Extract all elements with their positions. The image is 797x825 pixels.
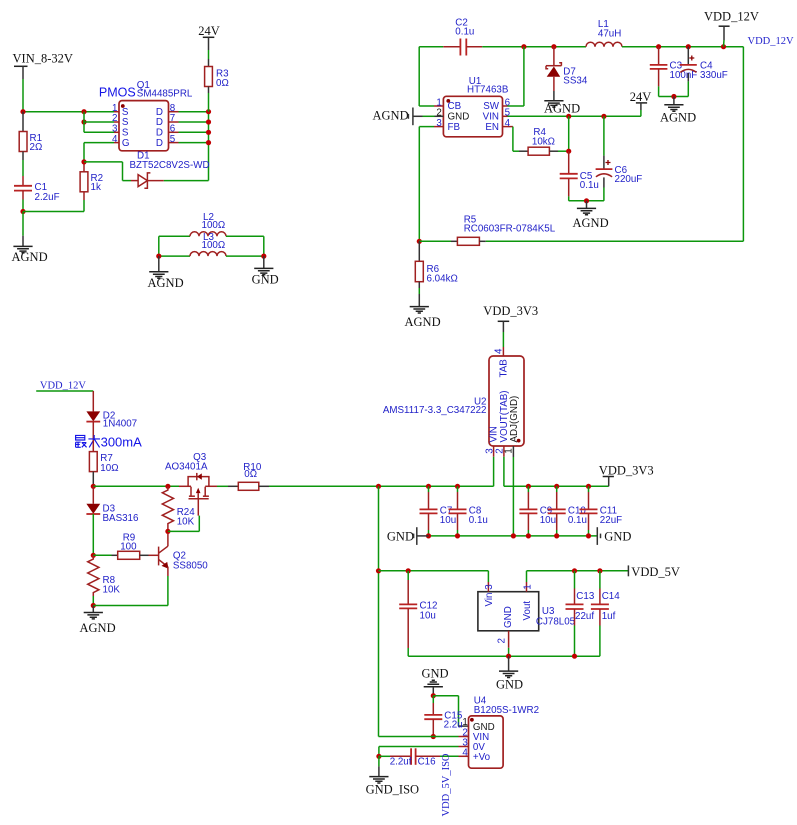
svg-text:0.1u: 0.1u bbox=[580, 180, 599, 191]
junction R24 bottom / Q2 collector / Q3 gate bbox=[165, 529, 170, 534]
svg-text:GND: GND bbox=[496, 678, 523, 692]
wire VIN flag to node A bbox=[22, 66, 24, 111]
junction 5V input rail bbox=[376, 568, 381, 573]
svg-text:G: G bbox=[122, 138, 130, 149]
capacitor C9 10u bbox=[519, 486, 556, 536]
wire L2-L3 left vertical bbox=[158, 236, 160, 256]
wire top rail left segment bbox=[419, 46, 443, 48]
junction node A bbox=[20, 109, 25, 114]
junction C7 top bbox=[426, 484, 431, 489]
U2 pin2 VOUT stub bbox=[503, 446, 505, 486]
ic U4 B1205S-1WR2 body bbox=[469, 696, 540, 769]
junction at x84 row1 bbox=[81, 109, 86, 114]
capacitor C5 0.1u bbox=[560, 151, 599, 201]
junction U2 pin1 bottom bbox=[511, 533, 516, 538]
svg-text:0.1u: 0.1u bbox=[568, 515, 587, 526]
junction C4 top bbox=[686, 44, 691, 49]
net label VDD_12V left bbox=[36, 380, 93, 411]
capacitor C12 10u bbox=[399, 571, 437, 656]
net port GND above C15 bbox=[422, 667, 449, 696]
svg-text:GND: GND bbox=[387, 530, 414, 544]
svg-text:22uF: 22uF bbox=[600, 515, 622, 526]
ground GND (L3) bbox=[252, 256, 279, 286]
junction C10 bottom bbox=[554, 533, 559, 538]
U1 pin numbers bbox=[436, 97, 510, 129]
svg-text:AGND: AGND bbox=[573, 216, 609, 230]
junction C8 bottom bbox=[455, 533, 460, 538]
svg-text:47uH: 47uH bbox=[598, 28, 621, 39]
junction GND/C15 bbox=[431, 693, 436, 698]
net flag 24V bbox=[198, 24, 220, 38]
resistor R2 bbox=[80, 162, 103, 212]
diode D2 1N4007 bbox=[86, 411, 137, 441]
net port GND left bbox=[387, 527, 429, 545]
svg-text:AGND: AGND bbox=[12, 250, 48, 264]
svg-text:C14: C14 bbox=[602, 591, 621, 602]
svg-text:BAS316: BAS316 bbox=[103, 513, 140, 524]
svg-text:5: 5 bbox=[170, 134, 176, 145]
svg-text:VDD_12V: VDD_12V bbox=[40, 380, 86, 391]
inductor L2 bbox=[159, 212, 264, 236]
U3 pin1 Vout stub bbox=[526, 571, 528, 592]
junction R7/D3/rail bbox=[91, 484, 96, 489]
wire bottom node to AGND bbox=[22, 212, 24, 247]
wire R24 node to Q3 gate bbox=[168, 499, 199, 532]
svg-text:AGND: AGND bbox=[405, 315, 441, 329]
junction C3 top bbox=[656, 44, 661, 49]
junction C10 top bbox=[554, 484, 559, 489]
junction C1/R2 bottom node bbox=[20, 209, 25, 214]
capacitor C4 330uF polarized bbox=[680, 47, 728, 97]
svg-text:1uf: 1uf bbox=[602, 611, 616, 622]
svg-text:BZT52C8V2S-WD: BZT52C8V2S-WD bbox=[130, 160, 210, 171]
resistor R4 10k bbox=[519, 127, 569, 155]
wire C5/C6 bottom bbox=[569, 200, 604, 202]
ground AGND (C5C6) bbox=[573, 201, 609, 230]
resistor R6 6.04k bbox=[415, 241, 457, 306]
svg-text:+Vo: +Vo bbox=[473, 752, 491, 763]
capacitor C16 2.2uf bbox=[379, 748, 469, 767]
inductor L3 bbox=[159, 232, 264, 256]
svg-text:EN: EN bbox=[485, 122, 499, 133]
svg-text:AMS1117-3.3_C347222: AMS1117-3.3_C347222 bbox=[383, 405, 487, 416]
diode D1 BZT52C8V2S-WD zener bbox=[130, 151, 210, 189]
wire Q3 source/drain stubs bbox=[179, 485, 228, 487]
svg-text:GND_ISO: GND_ISO bbox=[366, 783, 419, 797]
svg-text:AGND: AGND bbox=[373, 109, 409, 123]
power flag VDD_12V bbox=[704, 10, 759, 47]
svg-text:2.2uF: 2.2uF bbox=[35, 192, 60, 203]
svg-text:AO3401A: AO3401A bbox=[165, 461, 208, 472]
junction D7 top bbox=[551, 44, 556, 49]
svg-text:2.2u: 2.2u bbox=[444, 719, 463, 730]
svg-text:10u: 10u bbox=[420, 610, 436, 621]
svg-text:AGND: AGND bbox=[148, 276, 184, 290]
wire 12V branch vertical down bbox=[378, 486, 380, 736]
diode D7 SS34 schottky bbox=[546, 47, 588, 101]
svg-text:4: 4 bbox=[494, 348, 505, 354]
junction C11 top bbox=[586, 484, 591, 489]
svg-text:GND: GND bbox=[422, 667, 449, 681]
wire R2 bottom to C1 node bbox=[23, 211, 84, 213]
svg-text:SM4485PRL: SM4485PRL bbox=[137, 88, 193, 99]
svg-text:100Ω: 100Ω bbox=[202, 240, 226, 251]
capacitor C15 2.2u bbox=[424, 696, 463, 737]
power flag VDD_3V3 right bbox=[599, 464, 654, 487]
wire top rail middle bbox=[482, 46, 586, 48]
svg-text:CJ78L05: CJ78L05 bbox=[536, 617, 576, 628]
junction R24 top bbox=[165, 484, 170, 489]
wire VIN row to 24V stub bbox=[508, 115, 641, 117]
svg-text:B1205S-1WR2: B1205S-1WR2 bbox=[474, 705, 539, 716]
junction C5C6 gnd bbox=[584, 198, 589, 203]
U1 pin names bbox=[448, 101, 500, 133]
svg-text:10Ω: 10Ω bbox=[100, 463, 118, 474]
wire 5V input rail bbox=[379, 571, 489, 582]
wire main rail to Q3 bbox=[93, 485, 179, 487]
junction R4/C5 bbox=[566, 149, 571, 154]
junction C9 bottom bbox=[526, 533, 531, 538]
ic U1 HT7463B body bbox=[443, 76, 508, 137]
svg-text:4: 4 bbox=[505, 118, 511, 129]
ground GND (U3) bbox=[496, 656, 523, 691]
resistor R5 RC0603FR-0784K5L bbox=[419, 214, 743, 245]
net port GND right bbox=[597, 527, 631, 545]
wire U3 bottom gnd rail bbox=[408, 655, 600, 657]
Q1 pin numbers 8-5 bbox=[170, 103, 176, 145]
junction C9 top bbox=[526, 484, 531, 489]
net port AGND at U1 GND pin bbox=[373, 108, 444, 126]
capacitor C7 10u bbox=[420, 486, 457, 536]
svg-text:U3: U3 bbox=[542, 606, 555, 617]
svg-text:4: 4 bbox=[112, 134, 118, 145]
net flag VIN_8-32V bbox=[13, 52, 73, 67]
capacitor C11 22uF bbox=[580, 486, 623, 536]
junction R2/pin4/D1 node bbox=[81, 159, 86, 164]
ic Q1 SM4485PRL body bbox=[119, 80, 193, 151]
U1 pin stubs bbox=[434, 106, 513, 127]
svg-text:0.1u: 0.1u bbox=[469, 515, 488, 526]
svg-text:Vin: Vin bbox=[484, 593, 495, 607]
junction R5/FB node bbox=[417, 239, 422, 244]
svg-text:330uF: 330uF bbox=[700, 70, 728, 81]
svg-text:HT7463B: HT7463B bbox=[467, 84, 509, 95]
resistor R10 0ohm bbox=[228, 462, 269, 490]
U2 pin3 VIN stub bbox=[493, 446, 495, 486]
svg-text:AGND: AGND bbox=[544, 102, 580, 116]
wire emitter bottom to AGND node bbox=[93, 605, 168, 607]
wire top rail right segment bbox=[622, 46, 743, 48]
junction C15 bottom / VIN row bbox=[431, 734, 436, 739]
Q1 pin stubs left bbox=[114, 112, 119, 143]
svg-text:SS8050: SS8050 bbox=[173, 560, 208, 571]
svg-text:GND: GND bbox=[252, 272, 279, 286]
svg-text:VDD_12V: VDD_12V bbox=[704, 10, 759, 24]
wire EN down to R4 bbox=[513, 127, 519, 152]
wire pin4 node down to D1 bbox=[84, 162, 131, 181]
svg-text:GND: GND bbox=[503, 606, 514, 628]
junctions 24V column bbox=[206, 109, 211, 145]
Q1 pin names S S S G bbox=[122, 107, 130, 149]
svg-text:1: 1 bbox=[462, 717, 467, 728]
svg-text:100nF: 100nF bbox=[670, 70, 698, 81]
svg-text:VDD_3V3: VDD_3V3 bbox=[483, 304, 538, 318]
wire right edge vertical down to R5 bbox=[742, 47, 744, 242]
svg-text:1: 1 bbox=[522, 584, 533, 589]
svg-text:10K: 10K bbox=[103, 585, 121, 596]
svg-text:24V: 24V bbox=[198, 24, 220, 38]
svg-text:0Ω: 0Ω bbox=[244, 469, 257, 480]
svg-text:VDD_5V: VDD_5V bbox=[631, 565, 680, 579]
power port VDD_5V bbox=[628, 565, 680, 579]
junction VIN/C6 column bbox=[601, 114, 606, 119]
Q1 pin names D D D D bbox=[156, 107, 163, 149]
Q1 pin numbers 1-4 bbox=[112, 103, 118, 145]
capacitor C14 1uf bbox=[591, 571, 620, 656]
capacitor C1 bbox=[14, 176, 60, 212]
ground AGND (D7) bbox=[544, 101, 580, 116]
svg-text:1k: 1k bbox=[91, 182, 101, 193]
junction L right bbox=[261, 254, 266, 259]
junction at x84 row2 bbox=[81, 119, 86, 124]
junction C13 bottom bbox=[572, 654, 577, 659]
svg-text:10u: 10u bbox=[540, 515, 556, 526]
svg-text:ADJ(GND): ADJ(GND) bbox=[509, 396, 520, 443]
resistor R9 100 bbox=[93, 532, 158, 559]
svg-text:C13: C13 bbox=[576, 591, 595, 602]
resistor R3 bbox=[205, 67, 229, 112]
svg-text:10kΩ: 10kΩ bbox=[532, 136, 555, 147]
wire Q1 pin2 bbox=[84, 121, 114, 123]
resistor R7 10ohm bbox=[89, 440, 118, 486]
junction rail/5V branch bbox=[376, 484, 381, 489]
svg-text:100Ω: 100Ω bbox=[202, 220, 226, 231]
capacitor C13 22uf bbox=[566, 571, 595, 656]
junction VDD_12V flag bbox=[721, 44, 726, 49]
wire SW up to top rail bbox=[508, 47, 524, 106]
ground AGND (R8) bbox=[80, 606, 116, 635]
junction C11 bottom bbox=[586, 533, 591, 538]
svg-text:GND: GND bbox=[604, 530, 631, 544]
ground GND_ISO bbox=[366, 756, 419, 796]
U2 pin1 ADJ stub down to GND rail bbox=[512, 446, 514, 536]
svg-text:300mA: 300mA bbox=[101, 434, 143, 449]
capacitor C10 0.1u bbox=[548, 486, 587, 536]
wire 24V column vertical bbox=[208, 112, 210, 181]
svg-text:SS34: SS34 bbox=[563, 75, 588, 86]
svg-text:22uf: 22uf bbox=[575, 611, 594, 622]
net flag 24V mid bbox=[630, 90, 652, 116]
U4 pin names bbox=[473, 722, 495, 763]
svg-text:1N4007: 1N4007 bbox=[103, 419, 137, 430]
svg-text:10K: 10K bbox=[177, 517, 195, 528]
ground AGND (R6) bbox=[405, 307, 441, 329]
svg-text:FB: FB bbox=[448, 122, 461, 133]
svg-text:PMOS: PMOS bbox=[99, 86, 136, 100]
svg-text:VIN_8-32V: VIN_8-32V bbox=[13, 52, 73, 66]
svg-text:2Ω: 2Ω bbox=[30, 142, 43, 153]
junction U3 gnd bbox=[506, 654, 511, 659]
wire U4 0V pin to GND_ISO node bbox=[379, 747, 469, 757]
ic U2 AMS1117-3.3 body bbox=[383, 356, 524, 446]
power flag VDD_3V3 top bbox=[483, 304, 538, 356]
wire L2-L3 right vertical bbox=[263, 236, 265, 256]
wire GND node to U4 pin1 bbox=[433, 696, 468, 726]
svg-text:C16: C16 bbox=[418, 757, 437, 768]
junction C8 top bbox=[455, 484, 460, 489]
transistor Q3 AO3401A pmos bbox=[165, 452, 209, 499]
svg-text:VDD_3V3: VDD_3V3 bbox=[599, 464, 654, 478]
svg-text:3: 3 bbox=[484, 584, 495, 590]
svg-text:220uF: 220uF bbox=[615, 174, 643, 185]
wire x84 rows1-3 vertical bbox=[83, 112, 85, 133]
U3 pin3 Vin stub bbox=[487, 582, 489, 592]
wire C2 left down to U1 CB bbox=[419, 47, 434, 106]
svg-text:D: D bbox=[156, 138, 163, 149]
junction L left bbox=[156, 254, 161, 259]
capacitor C2 bbox=[443, 18, 482, 56]
ground AGND (L2) bbox=[148, 256, 184, 290]
wire 5V output rail bbox=[527, 570, 629, 572]
junction C12 top bbox=[406, 568, 411, 573]
Q1 pin stubs right bbox=[169, 112, 179, 143]
wire GND rail bbox=[429, 535, 598, 537]
annotation max 300mA bbox=[76, 435, 100, 447]
U4 pin numbers bbox=[462, 717, 468, 758]
wire node A horizontal to Q1 pin1 bbox=[23, 111, 114, 113]
svg-text:2.2uf: 2.2uf bbox=[390, 757, 412, 768]
ground AGND (C1) bbox=[12, 246, 48, 264]
wire Q1 pin4 from R2 node bbox=[84, 143, 114, 162]
transistor Q2 SS8050 npn bbox=[159, 534, 209, 606]
svg-text:0Ω: 0Ω bbox=[216, 78, 229, 89]
junction R8 bottom bbox=[91, 603, 96, 608]
svg-text:100: 100 bbox=[120, 541, 137, 552]
wire 3V3 output rail bbox=[504, 485, 609, 487]
wire 24V to R3 bbox=[208, 37, 210, 66]
junction SW top bbox=[521, 44, 526, 49]
ic U3 CJ78L05 body bbox=[478, 592, 576, 631]
resistor R1 bbox=[19, 112, 42, 176]
capacitor C6 220uF polarized bbox=[596, 116, 643, 201]
resistor R8 10K zigzag bbox=[88, 555, 121, 605]
svg-text:RC0603FR-0784K5L: RC0603FR-0784K5L bbox=[464, 224, 556, 235]
wire Q1 pin3 bbox=[84, 131, 114, 133]
svg-text:0.1u: 0.1u bbox=[455, 27, 474, 38]
svg-text:24V: 24V bbox=[630, 90, 652, 104]
svg-text:AGND: AGND bbox=[80, 621, 116, 635]
resistor R24 10K zigzag bbox=[162, 486, 195, 531]
wire C5 column vertical bbox=[568, 116, 570, 151]
wires Q1 right pins to 24V column bbox=[179, 112, 209, 143]
wire R10 to U2 VIN rail bbox=[269, 485, 494, 487]
svg-text:Vout: Vout bbox=[522, 601, 533, 621]
capacitor C8 0.1u bbox=[449, 486, 488, 536]
svg-text:VDD_12V: VDD_12V bbox=[748, 36, 794, 47]
ground AGND (C3C4) bbox=[660, 97, 696, 125]
junction GND_ISO node bbox=[376, 754, 381, 759]
svg-text:10u: 10u bbox=[440, 515, 456, 526]
svg-text:VDD_5V_ISO: VDD_5V_ISO bbox=[441, 753, 452, 816]
diode D3 BAS316 bbox=[86, 486, 139, 555]
svg-text:AGND: AGND bbox=[660, 111, 696, 125]
svg-text:TAB: TAB bbox=[499, 359, 510, 378]
junction C14 top bbox=[597, 568, 602, 573]
capacitor C3 100nF bbox=[650, 47, 697, 97]
svg-text:3: 3 bbox=[436, 118, 442, 129]
U3 pin2 GND stub bbox=[508, 631, 510, 656]
wire 12V branch to U4 VIN bbox=[379, 736, 469, 738]
svg-text:6.04kΩ: 6.04kΩ bbox=[427, 274, 458, 285]
junction D3/R9/R8 bbox=[91, 553, 96, 558]
junction VIN/C5 column bbox=[566, 114, 571, 119]
wire C3/C4 bottom bbox=[659, 96, 689, 98]
junction C3C4 gnd bbox=[671, 94, 676, 99]
inductor L1 47uH bbox=[586, 19, 622, 47]
junction C7 bottom bbox=[426, 533, 431, 538]
junction C13 top bbox=[572, 568, 577, 573]
svg-text:2: 2 bbox=[496, 638, 507, 643]
wire FB down to R5 node bbox=[419, 127, 434, 242]
